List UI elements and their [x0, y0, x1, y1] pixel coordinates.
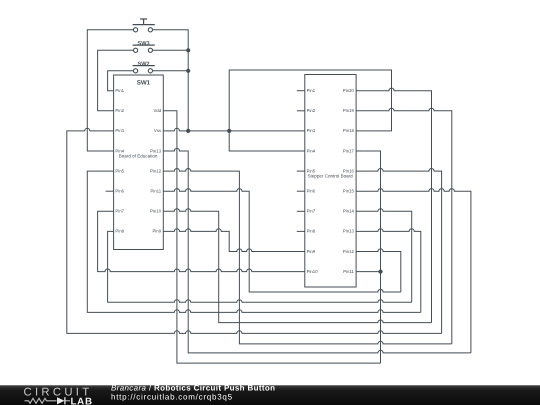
- svg-text:Stepper Control Board: Stepper Control Board: [307, 173, 353, 178]
- wire BOE Pin8 down-around (bottom rail y302.3): [108, 231, 412, 302]
- pin stub Stepper Pin5 (unconnected): [297, 170, 305, 172]
- svg-text:Pin8: Pin8: [307, 229, 316, 234]
- svg-text:Pin2: Pin2: [307, 108, 316, 113]
- wire Stepper Pin11 to riser: [356, 271, 380, 273]
- svg-text:Vdd: Vdd: [153, 108, 161, 113]
- pushbutton SW4 (top, unlabeled): [133, 19, 155, 32]
- svg-text:Pin9: Pin9: [307, 249, 316, 254]
- svg-text:SW1: SW1: [137, 79, 151, 86]
- wire Stepper Pin17 stub: [356, 150, 364, 152]
- wire Stepper Pin13 to riser x420.8: [356, 229, 421, 313]
- wire BOE Pin13 down-around (bottom rail y352.9): [163, 148, 471, 352]
- svg-text:Board of Education: Board of Education: [119, 153, 158, 158]
- junction dot SW2/common: [186, 69, 190, 73]
- pushbutton SW3: [133, 41, 155, 53]
- wire SW2 left terminal to BOE Pin1: [108, 71, 134, 91]
- wire SW4 right terminal to common rail: [153, 30, 189, 131]
- junction dot Stepper Pin11/riser: [378, 270, 382, 274]
- svg-text:Pin5: Pin5: [115, 168, 124, 173]
- svg-text:Pin7: Pin7: [307, 209, 316, 214]
- wire BOE Pin12 down-around (bottom rail y343.9): [163, 169, 452, 344]
- svg-text:Pin17: Pin17: [343, 148, 355, 153]
- svg-text:Pin8: Pin8: [115, 229, 124, 234]
- svg-text:Pin10: Pin10: [307, 269, 319, 274]
- svg-text:Pin16: Pin16: [343, 168, 355, 173]
- svg-text:Pin11: Pin11: [343, 269, 354, 274]
- pin stub Stepper Pin6 (unconnected): [297, 190, 305, 192]
- junction dot SW3/common: [186, 48, 190, 52]
- svg-text:Pin12: Pin12: [343, 249, 355, 254]
- svg-text:Pin1: Pin1: [307, 88, 316, 93]
- pin stub Stepper Pin2 (unconnected): [297, 110, 305, 112]
- wire BOE Pin7 to Stepper Pin10 (rail y271.6): [98, 211, 305, 271]
- svg-text:Pin11: Pin11: [150, 189, 161, 194]
- pushbutton SW2: [133, 61, 155, 73]
- svg-text:Pin13: Pin13: [150, 148, 162, 153]
- wire BOE Pin9 to Stepper Pin9: [163, 229, 304, 252]
- svg-text:Pin20: Pin20: [343, 88, 355, 93]
- svg-text:Pin13: Pin13: [343, 229, 355, 234]
- svg-text:Pin6: Pin6: [115, 189, 124, 194]
- CircuitLab logo: [24, 386, 93, 405]
- wire BOE Vss to Stepper Pin3: [163, 128, 304, 131]
- svg-text:Pin12: Pin12: [150, 168, 162, 173]
- pin stub Stepper Pin1 (unconnected): [297, 90, 305, 92]
- svg-text:Pin3: Pin3: [115, 128, 124, 133]
- wire SW3 right terminal to common rail: [153, 49, 189, 51]
- svg-text:Pin10: Pin10: [150, 209, 162, 214]
- svg-text:Pin7: Pin7: [115, 209, 124, 214]
- IC Stepper Control Board: [305, 75, 356, 288]
- svg-text:SW3: SW3: [138, 41, 150, 47]
- wire Stepper Pin20 to riser x431.5: [356, 88, 431, 323]
- svg-text:Pin18: Pin18: [343, 128, 355, 133]
- svg-text:LAB: LAB: [71, 396, 93, 405]
- svg-text:Pin19: Pin19: [343, 108, 355, 113]
- svg-text:Pin6: Pin6: [307, 189, 316, 194]
- svg-text:SW2: SW2: [138, 61, 150, 67]
- IC SW1 Board of Education: [114, 75, 164, 250]
- wire Stepper Pin12 to riser x400.8: [356, 249, 401, 292]
- wire BOE Pin10 down-around (bottom rail y322.6): [163, 209, 431, 323]
- pin stub Stepper Pin7 (unconnected): [297, 210, 305, 212]
- wire BOE Vdd down and around to riser x380.5: [163, 111, 380, 363]
- wire BOE Pin11 down-around (bottom rail y292): [163, 189, 400, 292]
- wire Stepper Pin15 to riser x470.9: [356, 189, 471, 353]
- junction dot Vss/common rail: [186, 129, 190, 133]
- svg-text:Pin15: Pin15: [343, 189, 355, 194]
- svg-text:Pin1: Pin1: [115, 88, 124, 93]
- svg-text:Pin9: Pin9: [152, 229, 161, 234]
- wire SW3 left terminal to BOE Pin2: [98, 50, 134, 111]
- wire Stepper Pin17 riser to Vdd bottom rail: [364, 151, 380, 363]
- wire BOE Pin5 down-around (bottom rail y312.4): [87, 171, 421, 312]
- wire Vss top loop to Stepper Pin18 and Stepper Pin4: [229, 70, 391, 151]
- wire Stepper Pin16 to riser x441.6: [356, 169, 442, 334]
- svg-text:Pin3: Pin3: [307, 128, 316, 133]
- svg-text:http://circuitlab.com/crqb3q5: http://circuitlab.com/crqb3q5: [111, 392, 233, 401]
- pin stub BOE Pin6 (unconnected): [106, 190, 114, 192]
- svg-text:Vss: Vss: [154, 128, 161, 133]
- svg-text:Pin4: Pin4: [115, 148, 124, 153]
- wire Stepper Pin14 to riser x411.7: [356, 209, 412, 303]
- svg-text:Brancara / Robotics Circuit Pu: Brancara / Robotics Circuit Push Button: [111, 383, 275, 392]
- pin stub Stepper Pin8 (unconnected): [297, 230, 305, 232]
- wire SW2 right terminal to common rail: [153, 70, 189, 72]
- wire BOE Pin3 down-around (bottom rail y333.4): [67, 128, 442, 333]
- wire SW4 left terminal to BOE Pin4: [87, 30, 133, 151]
- junction dot Vss/top loop: [227, 129, 231, 133]
- svg-text:Pin2: Pin2: [115, 108, 124, 113]
- svg-text:Pin4: Pin4: [307, 148, 316, 153]
- wire Stepper Pin19 to riser x451.8: [356, 108, 452, 344]
- svg-text:Pin14: Pin14: [343, 209, 355, 214]
- svg-text:Pin5: Pin5: [307, 168, 316, 173]
